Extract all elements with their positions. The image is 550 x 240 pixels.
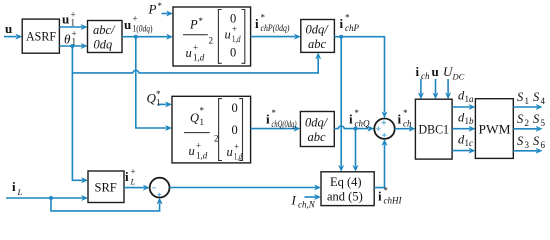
svg-text:*: * <box>272 108 277 118</box>
wire ich sum to DBC1 <box>395 126 416 132</box>
wire d1b DBC1 to PWM <box>452 126 475 132</box>
svg-text:*: * <box>384 186 389 196</box>
svg-text:Q: Q <box>190 111 199 125</box>
svg-text:abc: abc <box>308 37 327 51</box>
block top 0dq/abc <box>301 20 335 53</box>
svg-text:chQ(0dq): chQ(0dq) <box>272 119 297 129</box>
svg-text:1a: 1a <box>465 94 475 104</box>
wire u input <box>4 34 22 40</box>
svg-text:i: i <box>12 179 16 194</box>
svg-text:S: S <box>517 90 524 104</box>
node ichP(0dq) label <box>255 13 290 34</box>
wire iL bypass to circle bottom <box>51 198 163 211</box>
junction u1(0dq) <box>134 35 138 39</box>
junction ichQ <box>354 127 358 131</box>
svg-text:0: 0 <box>230 46 236 60</box>
wire Q1* input <box>158 101 173 107</box>
svg-text:1: 1 <box>525 96 530 106</box>
svg-text:S: S <box>533 90 540 104</box>
wire P* input <box>162 11 174 17</box>
svg-text:1c: 1c <box>465 138 474 148</box>
block SRF <box>88 171 124 203</box>
junction iL <box>49 196 53 200</box>
wire theta dropper to SRF <box>72 46 88 183</box>
node ichP label <box>340 13 360 34</box>
svg-text:4: 4 <box>541 96 546 106</box>
node iL label <box>12 179 23 197</box>
node ich label <box>398 108 412 129</box>
svg-text:+: + <box>131 167 136 177</box>
wire ichQ to sum circle left (hop over ichP dropper) <box>334 126 374 132</box>
svg-text:2: 2 <box>209 36 214 46</box>
svg-text:1,d: 1,d <box>234 152 242 162</box>
wire UDC top input to DBC1 <box>445 79 451 99</box>
svg-text:i: i <box>398 112 402 127</box>
svg-text:i: i <box>416 64 420 79</box>
svg-text:ch: ch <box>421 71 430 81</box>
svg-text:S: S <box>517 112 524 126</box>
svg-text:2: 2 <box>214 134 219 144</box>
svg-text:i: i <box>340 16 344 31</box>
wire S3 S6 output <box>513 148 542 154</box>
wire S2 S5 output <box>513 126 542 132</box>
svg-text:chQ: chQ <box>355 119 370 129</box>
node Ich,N label <box>291 193 316 210</box>
wire Ich,N input <box>305 194 322 200</box>
svg-text:0dq: 0dq <box>94 38 113 52</box>
svg-text:1: 1 <box>71 18 76 28</box>
svg-text:Eq (4): Eq (4) <box>330 175 362 189</box>
svg-text:1(0dq): 1(0dq) <box>133 24 153 34</box>
node S2 S5 labels <box>517 112 546 128</box>
block DBC1 <box>415 99 452 159</box>
svg-text:5: 5 <box>541 118 546 128</box>
svg-text:abc: abc <box>308 130 327 144</box>
wire u1(0dq) to P block <box>122 34 173 40</box>
svg-text:*: * <box>200 106 205 116</box>
svg-text:1,d: 1,d <box>232 34 241 44</box>
summing junction right <box>374 119 394 139</box>
svg-text:+: + <box>196 141 201 151</box>
wire harmonic current to Eq block <box>170 185 322 191</box>
svg-text:I: I <box>291 193 297 208</box>
node theta1+ label <box>64 29 77 47</box>
node d1c label <box>458 133 473 149</box>
wire iL+ SRF to subtract circle <box>124 185 150 191</box>
node S1 S4 labels <box>517 90 546 106</box>
node UDC label <box>443 64 465 82</box>
svg-text:u: u <box>189 144 195 158</box>
svg-text:Q: Q <box>147 91 157 106</box>
svg-text:*: * <box>403 108 408 118</box>
block Eq (4) and (5) <box>321 172 374 206</box>
wire S1 S4 output <box>513 104 542 110</box>
svg-text:S: S <box>517 134 524 148</box>
node ich top label <box>416 64 430 81</box>
svg-text:+: + <box>232 24 237 34</box>
node u1(0dq)+ label <box>124 14 153 34</box>
svg-text:*: * <box>261 13 266 23</box>
svg-text:3: 3 <box>525 140 530 150</box>
block abc/0dq <box>88 21 123 53</box>
svg-text:0: 0 <box>232 101 238 115</box>
svg-text:SRF: SRF <box>95 181 117 195</box>
node d1a label <box>458 89 474 105</box>
svg-text:DC: DC <box>452 72 465 82</box>
svg-text:1b: 1b <box>465 116 475 126</box>
svg-text:2: 2 <box>525 118 530 128</box>
svg-text:chP: chP <box>345 23 359 33</box>
node iL+ label <box>125 167 136 187</box>
node S3 S6 labels <box>517 134 546 150</box>
svg-text:P: P <box>189 18 198 32</box>
svg-text:P: P <box>148 2 157 17</box>
svg-text:u: u <box>124 17 131 32</box>
svg-text:S: S <box>533 112 540 126</box>
svg-text:ASRF: ASRF <box>26 30 56 44</box>
node ichQ(0dq) label <box>266 108 297 129</box>
svg-text:and (5): and (5) <box>327 190 363 204</box>
node u1+ label <box>62 10 76 28</box>
svg-text:u: u <box>186 46 192 60</box>
svg-text:abc/: abc/ <box>93 23 116 37</box>
subtract junction left <box>150 178 170 198</box>
svg-text:θ: θ <box>64 32 71 47</box>
svg-text:*: * <box>158 1 163 11</box>
junction theta <box>70 44 74 48</box>
node d1b label <box>458 111 474 127</box>
wire ichQ dropper to Eq block <box>353 129 359 172</box>
block PWM <box>475 99 513 159</box>
svg-text:*: * <box>199 16 204 26</box>
svg-text:0: 0 <box>232 123 238 137</box>
svg-text:u: u <box>225 28 231 42</box>
node Q1* label <box>147 89 162 108</box>
svg-text:ch: ch <box>403 119 412 129</box>
svg-text:+: + <box>133 14 138 24</box>
wire ichQ(0dq) Q block to bottom 0dq/abc <box>251 126 301 132</box>
svg-text:PWM: PWM <box>479 122 511 137</box>
block bottom 0dq/abc <box>300 112 334 147</box>
svg-text:1: 1 <box>156 98 161 108</box>
svg-text:u: u <box>227 145 233 159</box>
svg-text:DBC1: DBC1 <box>419 123 450 137</box>
block ASRF <box>22 19 59 53</box>
wire u top input to DBC1 <box>433 79 439 99</box>
svg-text:chP(0dq): chP(0dq) <box>261 23 290 33</box>
wire ichHI Eq block to sum circle bottom <box>374 139 387 188</box>
svg-text:u: u <box>432 64 439 79</box>
svg-text:chHI: chHI <box>384 196 403 206</box>
wire ichP to sum circle top <box>334 37 387 119</box>
svg-text:+: + <box>234 142 239 152</box>
block Q reference calculator <box>172 96 251 163</box>
node ichHI label <box>378 186 402 206</box>
junction ichP <box>339 35 343 39</box>
wire iL input <box>6 195 88 201</box>
wire u1+ ASRF to abc/0dq <box>59 24 87 30</box>
svg-text:u: u <box>5 21 12 36</box>
wire ichP(0dq) P block to top 0dq/abc <box>251 34 301 40</box>
node P* label <box>148 1 163 17</box>
svg-text:1,d: 1,d <box>196 151 208 161</box>
svg-text:*: * <box>345 13 350 23</box>
wire d1c DBC1 to PWM <box>452 148 475 154</box>
block P reference calculator <box>173 7 251 66</box>
svg-text:L: L <box>17 187 23 197</box>
wire u dropper to Q block <box>136 37 172 131</box>
svg-text:0dq/: 0dq/ <box>306 23 330 37</box>
node ichQ label <box>349 108 370 129</box>
svg-text:i: i <box>255 16 259 31</box>
wire theta bus to top 0dq/abc (with hop over u dropper) <box>72 52 321 73</box>
svg-text:i: i <box>378 189 382 204</box>
svg-text:u: u <box>62 12 69 27</box>
svg-text:+: + <box>193 43 198 53</box>
wire ich top input to DBC1 <box>418 79 424 99</box>
svg-text:L: L <box>130 177 136 187</box>
svg-text:i: i <box>266 112 270 127</box>
svg-text:*: * <box>355 108 360 118</box>
svg-text:ch,N: ch,N <box>298 200 316 210</box>
wire d1a DBC1 to PWM <box>452 104 475 110</box>
svg-text:S: S <box>533 134 540 148</box>
svg-text:1: 1 <box>200 117 205 127</box>
wire theta1+ ASRF to abc/0dq <box>59 43 87 49</box>
svg-text:6: 6 <box>541 140 546 150</box>
svg-text:1,d: 1,d <box>193 53 205 63</box>
wire ichP dropper to Eq block <box>338 37 344 172</box>
svg-text:0dq/: 0dq/ <box>305 116 329 130</box>
svg-text:i: i <box>349 112 353 127</box>
svg-text:i: i <box>125 169 129 184</box>
